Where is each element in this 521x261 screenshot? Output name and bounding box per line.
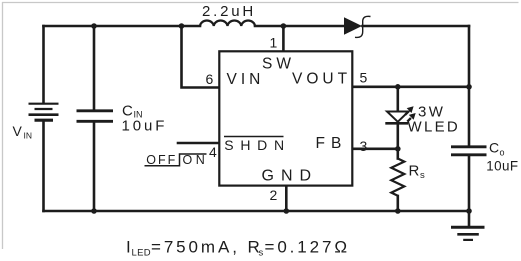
svg-text:5: 5 — [360, 70, 368, 86]
svg-text:OFF: OFF — [146, 153, 177, 167]
node junction VOUT wire at WLED — [395, 84, 401, 90]
node junction top rail at CIN — [91, 23, 97, 29]
node junction FB wire at WLED cathode — [395, 146, 401, 152]
wire Co bottom to ground symbol — [468, 156, 471, 227]
svg-text:VOUT: VOUT — [292, 71, 351, 88]
label Rs — [409, 163, 426, 182]
wire SHDN pin 4 stub — [178, 142, 219, 145]
svg-text:o: o — [500, 148, 505, 158]
svg-text:1: 1 — [270, 35, 278, 51]
wire SW node to diode anode — [283, 25, 344, 28]
op-amp U1 regulator IC body — [219, 51, 352, 185]
svg-text:SW: SW — [262, 56, 295, 73]
label VIN — [13, 123, 33, 141]
label caption ILED and RS values — [126, 238, 350, 259]
LED D2 WLED — [385, 106, 415, 123]
svg-text:VIN: VIN — [227, 71, 265, 88]
label 2.2uH — [202, 3, 256, 20]
svg-text:SHDN: SHDN — [224, 137, 290, 153]
svg-text:ON: ON — [183, 153, 209, 167]
label SHDN pin with overline — [224, 137, 291, 154]
wire VIN pin 6 connection — [182, 26, 220, 88]
svg-text:4: 4 — [209, 144, 217, 160]
wire VOUT pin 5 to right rail — [352, 86, 469, 89]
svg-text:V: V — [13, 123, 23, 139]
ground symbol — [451, 227, 485, 240]
svg-text:R: R — [409, 163, 420, 180]
wire diode cathode to top-right corner — [363, 25, 470, 28]
svg-text:s: s — [259, 248, 264, 259]
node junction top rail at SW pin — [281, 23, 287, 29]
wire WLED anode lead — [396, 87, 399, 111]
wire left vertical battery top lead — [42, 26, 45, 103]
wire FB pin 3 to Rs node — [352, 148, 398, 151]
svg-text:3: 3 — [360, 138, 368, 154]
svg-text:LED: LED — [132, 248, 151, 259]
capacitor Co — [451, 147, 487, 155]
inductor L 2.2uH — [200, 21, 255, 26]
svg-text:2: 2 — [270, 187, 278, 203]
wire right rail diode to Co top — [468, 26, 471, 146]
svg-text:WLED: WLED — [408, 119, 461, 136]
label Co value — [486, 140, 518, 174]
svg-text:FB: FB — [316, 135, 348, 152]
node junction ground rail at CIN — [91, 208, 97, 214]
svg-text:=750mA, R: =750mA, R — [151, 238, 263, 257]
wire FB node to Rs top — [396, 149, 399, 159]
resistor Rs — [391, 159, 404, 196]
wire top rail left segment (VIN rail) — [44, 25, 201, 28]
svg-text:s: s — [420, 170, 425, 181]
svg-text:C: C — [489, 140, 499, 156]
svg-text:10uF: 10uF — [486, 159, 518, 174]
svg-text:=0.127Ω: =0.127Ω — [265, 238, 350, 257]
svg-text:10uF: 10uF — [122, 118, 168, 135]
wire GND pin 2 to ground rail — [285, 186, 288, 211]
node junction ground rail at GND pin — [284, 208, 290, 214]
wire top rail mid segment (inductor to SW node) — [255, 25, 283, 28]
svg-text:2.2uH: 2.2uH — [202, 3, 256, 20]
node junction ground rail at Rs — [395, 208, 401, 214]
capacitor CIN — [77, 111, 114, 122]
battery VIN source — [29, 104, 59, 121]
node OFF/ON annotation at SHDN — [145, 153, 209, 167]
wire WLED cathode to FB node — [396, 125, 399, 149]
svg-text:6: 6 — [206, 71, 214, 87]
svg-text:IN: IN — [24, 131, 33, 141]
diode D1 schottky — [344, 16, 371, 37]
label CIN value — [122, 103, 168, 135]
wire SW pin 1 connection — [282, 26, 285, 51]
node junction ground rail at right rail — [466, 208, 472, 214]
wire CIN top lead — [93, 26, 96, 110]
wire left vertical battery bottom lead — [42, 122, 45, 212]
wire bottom ground rail — [44, 210, 470, 213]
node junction top rail at VIN pin drop — [179, 23, 185, 29]
wire CIN bottom lead — [93, 123, 96, 212]
node junction VOUT wire at right rail — [466, 84, 472, 90]
LED arrow 2 — [407, 118, 411, 122]
LED arrow 1 — [405, 111, 409, 115]
wire Rs bottom lead — [396, 196, 399, 211]
svg-text:GND: GND — [262, 168, 319, 185]
svg-text:I: I — [126, 238, 131, 257]
